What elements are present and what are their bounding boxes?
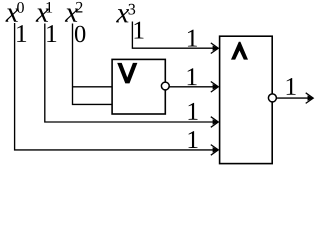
wire label 1 (x0 wire) <box>189 131 198 148</box>
wire x0: vertical then bottom horizontal to AND input 4 <box>15 23 218 150</box>
output label 1 <box>287 78 296 95</box>
arrowhead into AND input 1 <box>211 43 219 54</box>
value 1 on input x0 <box>17 25 26 42</box>
input label x^2 <box>65 8 78 21</box>
value 1 on input x3 <box>135 22 144 39</box>
AND gate output bubble <box>268 94 276 102</box>
value 0 on input x2 <box>75 26 85 43</box>
wire label 1 (x1 wire) <box>189 103 198 120</box>
arrowhead into AND input 2 <box>211 82 219 93</box>
input label x^3 <box>116 9 129 22</box>
wire x1: vertical then horizontal to AND input 3 <box>45 24 218 123</box>
OR gate V symbol <box>117 63 137 84</box>
OR gate output bubble <box>161 82 169 90</box>
wire x3: vertical then horizontal to AND input 1 <box>132 22 217 49</box>
arrowhead into AND input 4 <box>211 145 219 156</box>
AND gate wedge symbol <box>231 42 248 60</box>
input label x^1 <box>36 8 49 21</box>
value 1 on input x1 <box>47 25 56 42</box>
AND gate box U2 <box>220 36 273 163</box>
OR gate box U1 <box>112 59 165 114</box>
wire x2: vertical down to lower OR input <box>73 24 113 105</box>
wire label 1 (NOR output) <box>188 68 197 85</box>
wire NOR output to AND input 2 <box>170 86 218 88</box>
arrowhead into AND input 3 <box>211 117 219 128</box>
input label x^0 <box>5 8 18 21</box>
wire label 1 (x3 wire) <box>188 30 197 47</box>
arrowhead on output <box>306 93 314 104</box>
wire x2 branch to upper OR input <box>73 86 113 88</box>
wire AND output <box>277 97 312 99</box>
